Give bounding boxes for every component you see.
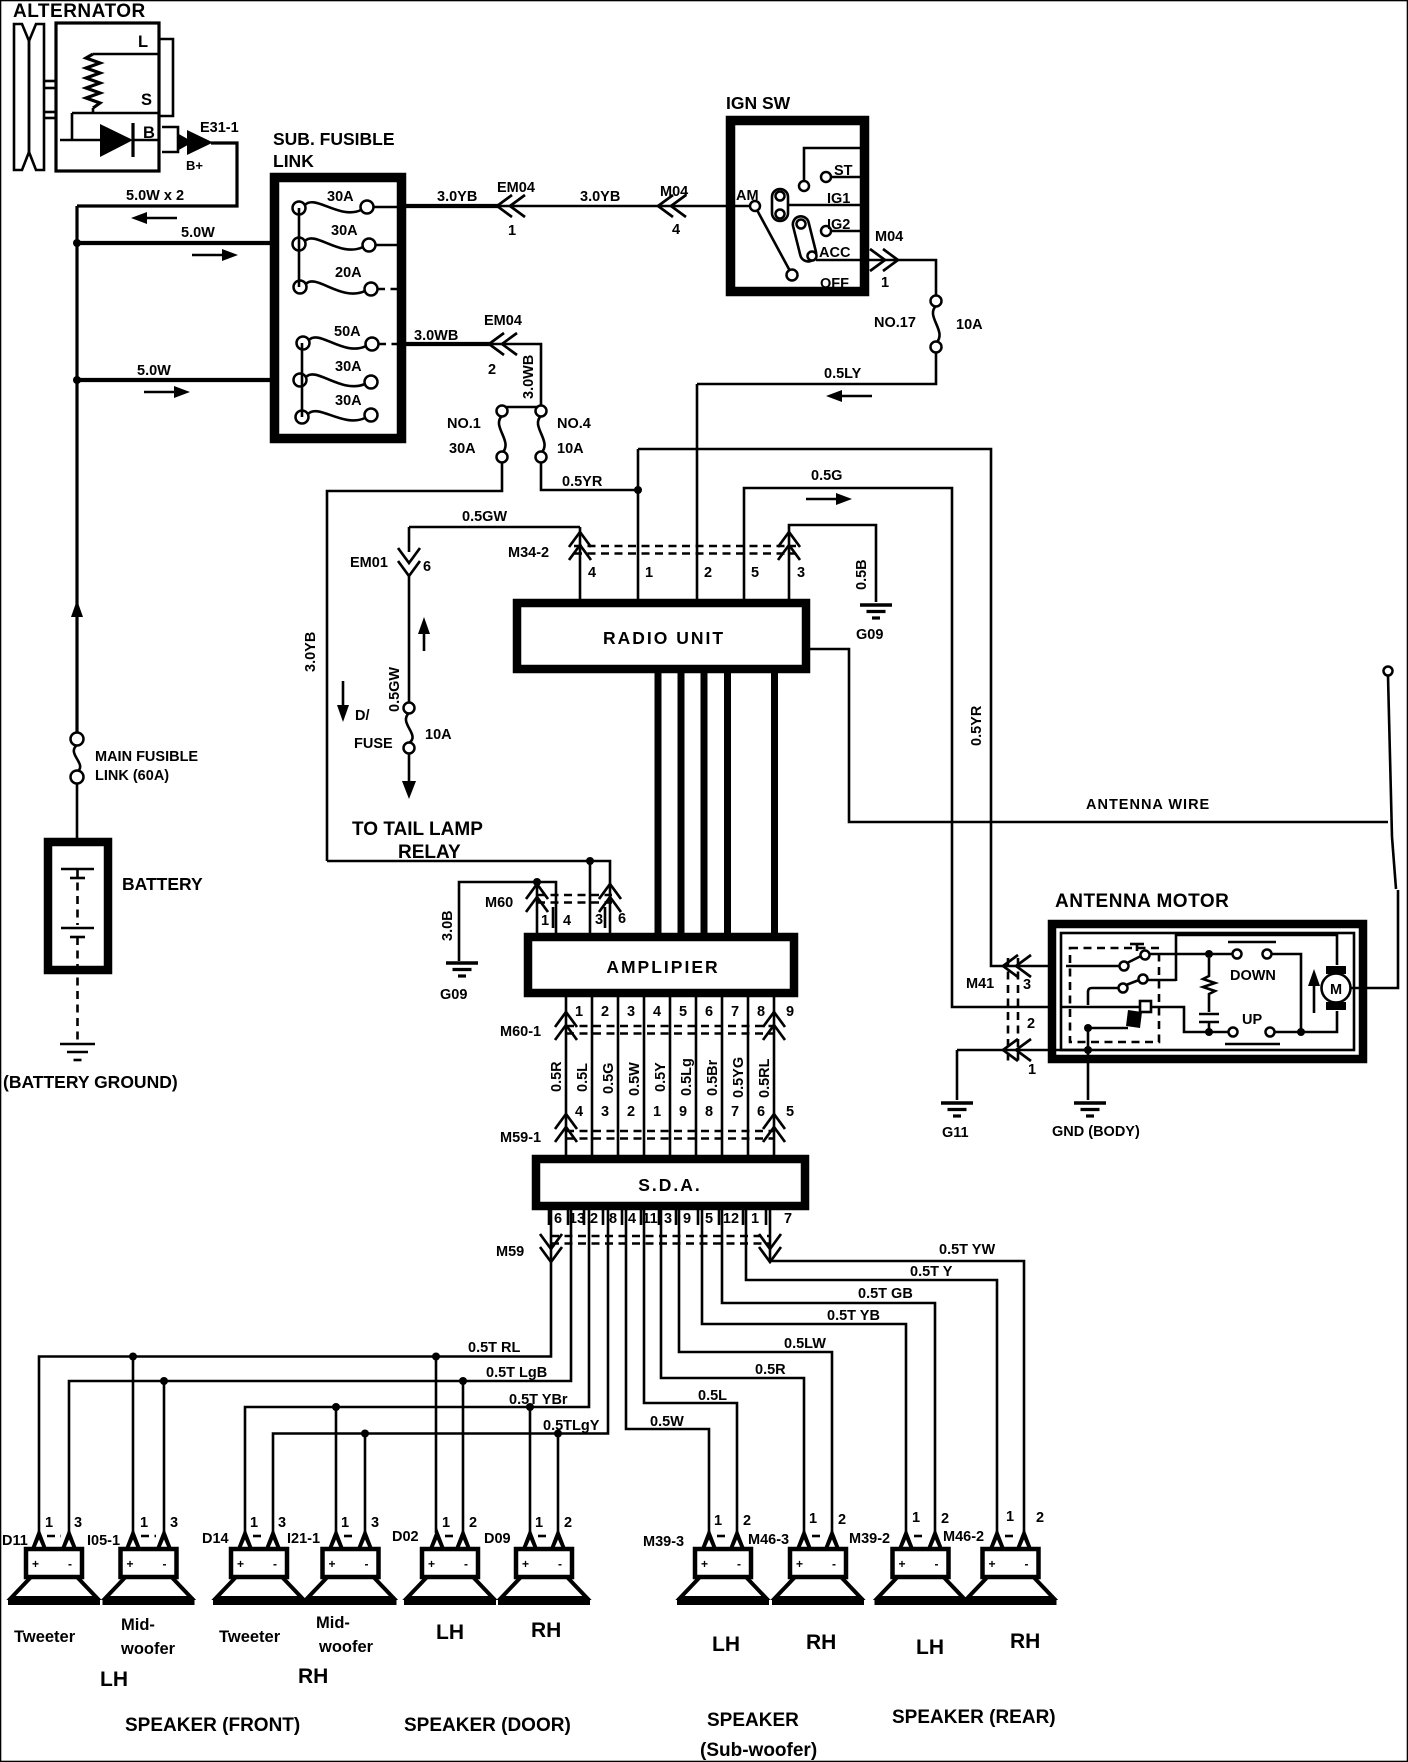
connector M60-1 arrows	[555, 1012, 785, 1040]
svg-text:5.0W x 2: 5.0W x 2	[126, 188, 184, 204]
wire M41-2 to contact C	[1061, 1006, 1140, 1009]
radio pin 2 wire 0.5LY	[696, 384, 699, 599]
svg-text:6: 6	[618, 911, 626, 927]
connector M41 dashes	[1008, 958, 1018, 1062]
svg-text:0.5Y: 0.5Y	[653, 1062, 669, 1092]
svg-text:2: 2	[601, 1004, 609, 1020]
thick wire 4	[724, 671, 731, 935]
svg-text:1: 1	[653, 1104, 661, 1120]
svg-text:1: 1	[881, 275, 889, 291]
svg-text:5: 5	[705, 1211, 713, 1227]
wire 0.5T RL	[39, 1206, 551, 1533]
svg-text:6: 6	[757, 1104, 765, 1120]
pin labels	[140, 1515, 178, 1531]
svg-text:1: 1	[645, 565, 653, 581]
svg-text:D11: D11	[2, 1533, 28, 1549]
svg-text:50A: 50A	[334, 324, 361, 340]
svg-text:1: 1	[442, 1515, 450, 1531]
svg-text:ACC: ACC	[819, 245, 851, 261]
svg-text:30A: 30A	[327, 189, 354, 205]
svg-text:3: 3	[1023, 977, 1031, 993]
svg-text:RH: RH	[806, 1631, 836, 1654]
wire 3.0YB to M60	[327, 857, 610, 933]
fuse 30A no2	[293, 238, 399, 252]
wire NO.1 down left	[327, 462, 502, 861]
svg-text:DOWN: DOWN	[1230, 968, 1276, 984]
svg-text:LH: LH	[712, 1633, 740, 1656]
svg-text:LH: LH	[100, 1668, 128, 1691]
antenna motor box	[1052, 924, 1363, 1059]
limit capacitor	[1199, 1014, 1219, 1032]
svg-text:1: 1	[45, 1515, 53, 1531]
wire 0.5T LgB	[69, 1206, 571, 1533]
svg-text:30A: 30A	[335, 393, 362, 409]
svg-text:0.5T YB: 0.5T YB	[827, 1308, 880, 1324]
M34-2 pin labels	[588, 565, 805, 581]
wire ACC out	[865, 260, 936, 297]
wire 3.0WB thick	[406, 342, 492, 346]
svg-text:0.5T LgB: 0.5T LgB	[486, 1365, 547, 1381]
wire 0.5GW vertical	[408, 576, 411, 703]
svg-text:MAIN FUSIBLE: MAIN FUSIBLE	[95, 749, 198, 765]
main fusible link fuse	[71, 733, 84, 784]
stator S wire	[72, 108, 158, 140]
svg-text:1: 1	[341, 1515, 349, 1531]
svg-text:SPEAKER (FRONT): SPEAKER (FRONT)	[125, 1715, 300, 1736]
flow arrow up	[418, 617, 430, 651]
wire M41-1	[957, 1049, 1088, 1052]
limit resistor	[1203, 958, 1215, 1012]
antenna feed wire	[810, 649, 1388, 822]
speaker subwoofer RH	[772, 1528, 864, 1602]
svg-text:ST: ST	[834, 163, 853, 179]
svg-text:Tweeter: Tweeter	[219, 1628, 281, 1646]
pin labels	[45, 1515, 82, 1531]
wire coil to ground junction	[1084, 1024, 1128, 1100]
svg-text:10A: 10A	[956, 317, 983, 333]
svg-text:1: 1	[1006, 1509, 1014, 1525]
svg-text:1: 1	[541, 913, 549, 929]
svg-text:FUSE: FUSE	[354, 736, 393, 752]
svg-text:RH: RH	[298, 1665, 328, 1688]
pin labels	[912, 1510, 949, 1527]
connector M41 arrow pin1	[1003, 1039, 1031, 1061]
svg-text:ANTENNA MOTOR: ANTENNA MOTOR	[1055, 891, 1229, 912]
svg-text:2: 2	[941, 1511, 949, 1527]
connector EM01 arrow down	[398, 527, 420, 576]
connector M34-2 arrow right	[778, 532, 800, 560]
wire B+ to bus	[77, 143, 237, 206]
switch lever	[757, 210, 798, 281]
amplifier box	[528, 937, 794, 993]
svg-text:3: 3	[74, 1515, 82, 1531]
svg-text:S: S	[141, 91, 152, 109]
ground GND BODY	[1074, 1103, 1106, 1116]
flow arrow down	[337, 681, 349, 722]
fuse 30A no3	[294, 374, 378, 389]
svg-text:0.5T GB: 0.5T GB	[858, 1286, 913, 1302]
svg-text:M46-3: M46-3	[748, 1532, 789, 1548]
radio pin 4 wire	[579, 527, 582, 599]
ground G09 radio	[860, 605, 892, 618]
harness wire 7	[721, 993, 724, 1157]
svg-text:2: 2	[743, 1513, 751, 1529]
svg-text:0.5R: 0.5R	[755, 1362, 786, 1378]
connector EM04 arrow	[489, 333, 517, 355]
svg-text:M34-2: M34-2	[508, 545, 549, 561]
speaker tweeter front RH	[213, 1528, 305, 1602]
svg-text:G11: G11	[942, 1125, 969, 1141]
svg-text:(Sub-woofer): (Sub-woofer)	[700, 1740, 817, 1761]
flow arrow up on bus	[71, 600, 83, 656]
relay coil	[1126, 1010, 1142, 1028]
svg-text:0.5LW: 0.5LW	[784, 1336, 826, 1352]
svg-text:7: 7	[731, 1004, 739, 1020]
svg-text:M39-2: M39-2	[849, 1531, 890, 1547]
svg-text:B+: B+	[186, 158, 203, 173]
midwoofer RH label	[316, 1614, 374, 1656]
svg-text:0.5L: 0.5L	[575, 1063, 591, 1092]
M60-1 pin numbers	[575, 1004, 794, 1020]
thick wire 3	[701, 671, 708, 935]
AM terminal	[750, 201, 760, 211]
svg-text:10A: 10A	[557, 441, 584, 457]
svg-text:SPEAKER: SPEAKER	[707, 1710, 799, 1731]
wire contact B out	[1148, 979, 1176, 982]
terminal bracket B	[162, 127, 178, 152]
ST terminal	[821, 172, 864, 182]
flow arrow right	[144, 386, 190, 398]
svg-text:3: 3	[170, 1515, 178, 1531]
svg-text:1: 1	[508, 223, 516, 239]
connector M34-2 dashes	[574, 546, 796, 554]
connector M59 dashes	[551, 1236, 770, 1244]
wire contact A to down switch	[1150, 950, 1232, 958]
svg-text:ANTENNA WIRE: ANTENNA WIRE	[1086, 797, 1210, 813]
connector M60 arrow 1	[526, 884, 548, 912]
svg-text:30A: 30A	[335, 359, 362, 375]
wire 0.5L	[644, 1206, 737, 1533]
svg-text:3.0YB: 3.0YB	[303, 632, 319, 672]
wire 3.0YB thick	[406, 204, 500, 208]
battery cells	[61, 869, 94, 937]
M59-1 pin numbers	[575, 1104, 794, 1120]
svg-text:NO.1: NO.1	[447, 416, 481, 432]
svg-text:SPEAKER (REAR): SPEAKER (REAR)	[892, 1707, 1056, 1728]
svg-text:0.5YR: 0.5YR	[562, 474, 603, 490]
svg-text:Mid-: Mid-	[121, 1616, 155, 1634]
svg-text:I21-1: I21-1	[287, 1531, 320, 1547]
IG2 terminal	[821, 226, 864, 236]
svg-text:0.5GW: 0.5GW	[387, 667, 403, 712]
svg-text:5.0W: 5.0W	[181, 225, 215, 241]
pin labels	[250, 1515, 286, 1531]
svg-text:0.5TLgY: 0.5TLgY	[543, 1418, 600, 1434]
svg-text:8: 8	[705, 1104, 713, 1120]
svg-text:M: M	[1330, 982, 1342, 998]
harness wire 6	[695, 993, 698, 1157]
wire NO.4 to 0.5YR	[541, 462, 642, 494]
pin labels	[341, 1515, 379, 1531]
svg-text:D02: D02	[392, 1529, 419, 1545]
svg-text:3.0WB: 3.0WB	[414, 328, 458, 344]
svg-text:Mid-: Mid-	[316, 1614, 350, 1632]
wire motor to mast	[1351, 890, 1398, 988]
coil top wire	[93, 53, 158, 56]
svg-text:D14: D14	[202, 1531, 229, 1547]
fuse NO.1	[497, 406, 508, 463]
wire 0.5T GB	[722, 1206, 935, 1533]
radio pin 1 wire	[637, 449, 640, 599]
svg-text:RH: RH	[531, 1619, 561, 1642]
svg-text:LH: LH	[436, 1621, 464, 1644]
svg-text:M41: M41	[966, 976, 994, 992]
svg-text:7: 7	[731, 1104, 739, 1120]
svg-text:NO.17: NO.17	[874, 315, 916, 331]
svg-text:0.5T YW: 0.5T YW	[939, 1242, 995, 1258]
svg-text:G09: G09	[856, 627, 883, 643]
relay contact A	[1066, 944, 1150, 971]
speaker subwoofer LH	[677, 1528, 769, 1602]
D fuse label	[354, 708, 393, 752]
wire 0.5R	[661, 1206, 804, 1533]
svg-text:1: 1	[809, 1511, 817, 1527]
svg-text:9: 9	[679, 1104, 687, 1120]
svg-text:5: 5	[751, 565, 759, 581]
wire 3.0YB thin	[500, 205, 750, 208]
relay contact B	[1088, 975, 1148, 1006]
antenna mast	[1384, 667, 1397, 890]
SDA box	[536, 1159, 805, 1206]
svg-text:3: 3	[595, 912, 603, 928]
svg-text:Tweeter: Tweeter	[14, 1628, 76, 1646]
wire left bus vertical	[75, 206, 78, 733]
wire 0.5LY	[697, 352, 936, 384]
svg-text:5: 5	[679, 1004, 687, 1020]
svg-text:woofer: woofer	[318, 1638, 374, 1656]
svg-text:8: 8	[757, 1004, 765, 1020]
svg-text:5.0W: 5.0W	[137, 363, 171, 379]
pin labels	[535, 1515, 572, 1531]
motor arrow up	[1308, 969, 1320, 1013]
svg-text:4: 4	[588, 565, 596, 581]
alternator body box	[56, 23, 159, 171]
svg-text:0.5LY: 0.5LY	[824, 366, 862, 382]
svg-text:2: 2	[704, 565, 712, 581]
wire 0.5T YB	[702, 1206, 906, 1533]
IGN SW box	[731, 121, 865, 292]
terminal bracket LS	[159, 39, 173, 116]
diode	[60, 123, 160, 157]
fuse bus upper	[298, 208, 301, 287]
svg-text:IG2: IG2	[827, 217, 850, 233]
svg-text:B: B	[143, 124, 155, 142]
alternator field coil	[86, 54, 100, 108]
wire 0.5T YBr	[245, 1206, 589, 1533]
svg-text:M04: M04	[875, 229, 903, 245]
svg-text:TO TAIL LAMP: TO TAIL LAMP	[352, 819, 483, 840]
svg-text:0.5Lg: 0.5Lg	[679, 1058, 695, 1096]
svg-text:RADIO UNIT: RADIO UNIT	[603, 628, 725, 648]
D fuse	[404, 703, 415, 754]
svg-text:(BATTERY GROUND): (BATTERY GROUND)	[3, 1072, 178, 1092]
wire 0.5TLgY	[273, 1206, 608, 1533]
fuse bus lower	[301, 343, 304, 417]
svg-text:1: 1	[575, 1004, 583, 1020]
harness wire 4	[643, 993, 646, 1157]
svg-text:L: L	[138, 33, 148, 51]
speaker subwoofer group label	[700, 1710, 817, 1761]
svg-text:1: 1	[250, 1515, 258, 1531]
svg-text:NO.4: NO.4	[557, 416, 591, 432]
svg-text:G09: G09	[440, 987, 467, 1003]
up switch	[1225, 1028, 1280, 1045]
harness wire 5	[669, 993, 672, 1157]
connector E31-1 arrow	[177, 130, 213, 155]
svg-text:6: 6	[705, 1004, 713, 1020]
connector M60-1 dashes	[566, 1026, 774, 1034]
wire 3.0B ground branch	[459, 878, 556, 961]
svg-text:EM04: EM04	[497, 180, 535, 196]
svg-text:6: 6	[423, 559, 431, 575]
wire 0.5LW	[679, 1206, 832, 1533]
svg-text:0.5GW: 0.5GW	[462, 509, 507, 525]
movable contact 2	[791, 215, 818, 264]
svg-text:8: 8	[609, 1211, 617, 1227]
flow arrow left	[131, 212, 177, 224]
svg-text:9: 9	[683, 1211, 691, 1227]
connector M59-1 dashes	[566, 1131, 774, 1139]
svg-text:0.5RL: 0.5RL	[757, 1058, 773, 1098]
speaker rear RH	[965, 1528, 1057, 1602]
speaker midwoofer front LH	[103, 1528, 195, 1602]
motor M	[1322, 966, 1351, 1010]
svg-text:LH: LH	[916, 1636, 944, 1659]
ST link terminal	[799, 148, 860, 191]
svg-text:3.0B: 3.0B	[440, 910, 456, 941]
speaker tweeter front LH	[8, 1528, 100, 1602]
svg-text:E31-1: E31-1	[200, 120, 239, 136]
svg-text:5: 5	[786, 1104, 794, 1120]
SDA pin numbers	[554, 1211, 792, 1227]
svg-text:4: 4	[653, 1004, 661, 1020]
svg-text:M60: M60	[485, 895, 513, 911]
svg-text:M59: M59	[496, 1244, 524, 1260]
svg-text:10A: 10A	[425, 727, 452, 743]
svg-text:4: 4	[628, 1211, 636, 1227]
svg-text:S.D.A.: S.D.A.	[638, 1175, 702, 1195]
speaker door LH	[404, 1528, 496, 1602]
pin labels	[442, 1515, 477, 1531]
wire 3.0WB corner	[492, 344, 541, 407]
svg-text:GND (BODY): GND (BODY)	[1052, 1124, 1140, 1140]
svg-text:AMPLIPIER: AMPLIPIER	[606, 957, 719, 977]
svg-text:3.0WB: 3.0WB	[521, 355, 537, 399]
svg-text:1: 1	[535, 1515, 543, 1531]
to tail lamp relay label	[352, 819, 483, 863]
svg-text:2: 2	[590, 1211, 598, 1227]
IG1 wire	[788, 204, 864, 207]
svg-text:SPEAKER (DOOR): SPEAKER (DOOR)	[404, 1715, 571, 1736]
svg-text:0.5R: 0.5R	[549, 1061, 565, 1092]
harness wire 1	[565, 993, 568, 1157]
fuse NO.17	[931, 296, 942, 353]
svg-text:UP: UP	[1242, 1012, 1262, 1028]
sub fusible link box	[275, 178, 402, 439]
pin labels	[809, 1511, 846, 1528]
svg-text:6: 6	[554, 1211, 562, 1227]
fuse 20A	[294, 281, 398, 296]
svg-text:RH: RH	[1010, 1630, 1040, 1653]
svg-text:M60-1: M60-1	[500, 1024, 541, 1040]
svg-text:LINK (60A): LINK (60A)	[95, 768, 169, 784]
svg-text:3: 3	[278, 1515, 286, 1531]
movable contact 1	[772, 189, 788, 221]
svg-text:4: 4	[672, 222, 680, 238]
connector M04 arrow	[658, 195, 686, 217]
fuse NO.4	[536, 406, 547, 463]
thick wire 5	[771, 671, 778, 935]
SDA pin cell dividers	[549, 1206, 766, 1225]
svg-text:1: 1	[140, 1515, 148, 1531]
connector M59-1 arrows	[555, 1114, 785, 1142]
svg-text:0.5YR: 0.5YR	[969, 705, 985, 746]
wire G11 riser	[956, 1050, 959, 1100]
flow arrow right	[806, 493, 852, 505]
svg-text:3: 3	[664, 1211, 672, 1227]
fuse NO.1 label	[447, 416, 481, 457]
svg-text:2: 2	[838, 1512, 846, 1528]
wire 5.0W lower	[73, 376, 279, 384]
svg-text:1: 1	[912, 1510, 920, 1526]
svg-text:12: 12	[723, 1211, 739, 1227]
svg-text:0.5G: 0.5G	[811, 468, 842, 484]
relay dashed box	[1070, 948, 1159, 1042]
ground G09 amp	[446, 963, 478, 976]
svg-text:20A: 20A	[335, 265, 362, 281]
radio pin 3 wire 0.5B	[789, 525, 876, 602]
wire 0.5G	[744, 488, 1054, 1007]
down switch	[1228, 942, 1276, 959]
ACC wire	[816, 259, 864, 262]
radio unit box	[517, 603, 806, 669]
wire contact C to up switch	[1151, 1007, 1228, 1036]
svg-text:D/: D/	[355, 708, 370, 724]
svg-text:EM04: EM04	[484, 313, 522, 329]
fuse 50A	[297, 337, 399, 351]
battery box	[48, 842, 108, 970]
svg-text:30A: 30A	[449, 441, 476, 457]
wire 0.5T YW	[770, 1206, 1024, 1533]
svg-text:0.5T Y: 0.5T Y	[910, 1264, 953, 1280]
wire fuse header	[502, 406, 541, 409]
svg-text:EM01: EM01	[350, 555, 388, 571]
svg-text:1: 1	[714, 1513, 722, 1529]
fuse 30A no1	[293, 201, 399, 215]
midwoofer label	[120, 1616, 176, 1658]
svg-text:M46-2: M46-2	[943, 1529, 984, 1545]
connector M60 dashes	[537, 895, 612, 903]
svg-text:0.5T RL: 0.5T RL	[468, 1340, 521, 1356]
svg-text:M59-1: M59-1	[500, 1130, 541, 1146]
fuse NO.4 label	[557, 416, 591, 457]
speaker door RH	[498, 1528, 590, 1602]
svg-text:0.5L: 0.5L	[698, 1388, 727, 1404]
M41 pin labels	[1023, 977, 1036, 1078]
svg-text:ALTERNATOR: ALTERNATOR	[13, 1, 146, 22]
relay contact C	[1140, 1001, 1151, 1012]
svg-text:2: 2	[469, 1515, 477, 1531]
